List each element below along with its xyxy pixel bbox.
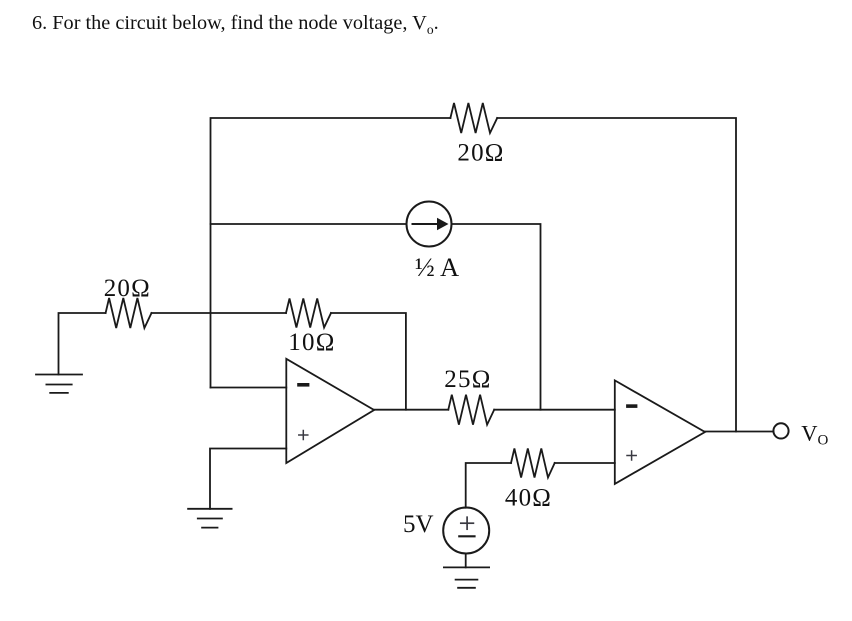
svg-text:40Ω: 40Ω: [505, 485, 552, 512]
svg-text:25Ω: 25Ω: [444, 366, 491, 393]
svg-text:10Ω: 10Ω: [288, 329, 335, 356]
svg-text:VO: VO: [801, 421, 828, 449]
svg-text:20Ω: 20Ω: [104, 275, 151, 302]
svg-text:5V: 5V: [403, 511, 434, 538]
svg-text:½ A: ½ A: [415, 252, 459, 282]
svg-text:20Ω: 20Ω: [457, 140, 504, 167]
